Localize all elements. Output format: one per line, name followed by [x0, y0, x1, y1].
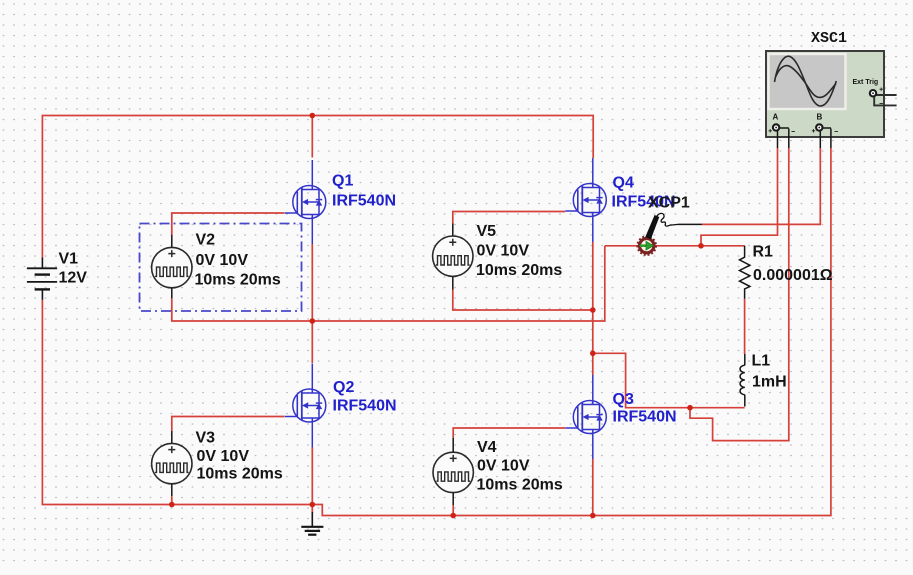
node Q3 source / ground rail: [590, 513, 596, 519]
pulse source V4: [433, 452, 473, 492]
node V5- / right leg: [590, 307, 596, 313]
svg-text:0.000001Ω: 0.000001Ω: [753, 267, 833, 284]
wire right leg Q4 source to Q3 drain: [592, 242, 594, 375]
scope trace B: [776, 66, 836, 98]
svg-text:B: B: [817, 113, 823, 122]
node top rail / Q1 drain: [310, 113, 316, 119]
wire Q1 drain branch: [311, 116, 313, 158]
wire V4- to ground rail: [452, 505, 454, 516]
wire Q2 source to ground rail: [311, 448, 313, 505]
wire probe node to R1 top: [605, 245, 745, 247]
transistor Q2: [285, 364, 326, 448]
wire L1 bottom to Q3 drain node: [593, 353, 745, 407]
transistor Q4: [565, 158, 606, 242]
node V3- / ground rail: [169, 502, 175, 508]
node Q3 drain branch: [590, 351, 596, 357]
battery V1: [27, 258, 57, 300]
wire V4+ to Q3 gate: [453, 428, 565, 438]
wire ground stub red: [311, 505, 313, 514]
svg-text:10ms 20ms: 10ms 20ms: [195, 271, 281, 288]
node V4- / ground rail: [450, 513, 456, 519]
wire V5- to right leg midpoint: [453, 290, 593, 311]
node probe wire / scope A+: [698, 243, 704, 249]
pulse source V2: [152, 247, 192, 287]
wire R1 bottom to L1 top: [744, 299, 746, 354]
node L1 bottom / scope A-: [687, 405, 693, 411]
transistor Q1: [285, 160, 326, 244]
svg-text:IRF540N: IRF540N: [613, 409, 677, 426]
pulse source V3: [152, 443, 192, 483]
svg-text:XSC1: XSC1: [811, 30, 847, 47]
svg-text:0V 10V: 0V 10V: [477, 243, 530, 260]
resistor R1: [740, 246, 750, 299]
wire ext trig leads: [874, 95, 896, 105]
wire Q3 source down to ground rail: [592, 459, 594, 516]
wire V5+ to Q4 gate: [453, 212, 565, 224]
svg-text:0V 10V: 0V 10V: [477, 458, 530, 475]
scope trace A: [775, 56, 837, 106]
wire scope A- to L1 bottom node: [690, 148, 789, 441]
svg-text:10ms 20ms: 10ms 20ms: [197, 466, 283, 483]
svg-text:IRF540N: IRF540N: [333, 398, 397, 415]
wire V3- to ground rail: [171, 496, 173, 504]
svg-text:V1: V1: [59, 251, 79, 268]
wire scope channel stubs: [776, 128, 831, 148]
svg-text:A: A: [773, 113, 779, 122]
svg-text:Ext Trig: Ext Trig: [853, 79, 879, 86]
oscilloscope XSC1: [766, 51, 897, 148]
svg-text:V2: V2: [196, 231, 216, 248]
wire clamp lead to scope B+ black part: [678, 223, 702, 225]
node Q2 source / ground: [310, 502, 316, 508]
selection box around V2: [140, 224, 302, 312]
ground: [301, 512, 323, 535]
wire V2+ to Q1 gate: [172, 213, 285, 235]
wire left leg midpoint Q1 source to Q2 drain: [311, 244, 313, 363]
svg-text:12V: 12V: [59, 270, 88, 287]
wire V2- to midpoint rail to probe wire: [172, 246, 605, 321]
svg-text:0V 10V: 0V 10V: [196, 252, 249, 269]
transistor Q3: [565, 375, 606, 459]
svg-text:0V 10V: 0V 10V: [197, 448, 250, 465]
wire V3+ to Q2 gate: [172, 417, 285, 432]
svg-text:XCP1: XCP1: [648, 195, 690, 212]
pulse source V5: [433, 236, 473, 276]
inductor L1: [740, 354, 745, 407]
svg-text:Q2: Q2: [333, 379, 354, 396]
wire top rail V1+ to Q1/Q4 drains: [42, 116, 593, 258]
svg-text:10ms 20ms: 10ms 20ms: [476, 262, 562, 279]
wire ground rail from V1- to scope B-: [42, 148, 831, 516]
node midpoint rail / left leg: [310, 318, 316, 324]
svg-text:10ms 20ms: 10ms 20ms: [477, 477, 563, 494]
svg-text:IRF540N: IRF540N: [332, 193, 396, 210]
wire scope A+ to probe node: [701, 148, 778, 246]
svg-text:1mH: 1mH: [752, 373, 787, 390]
svg-text:Q3: Q3: [613, 391, 634, 408]
svg-text:V3: V3: [196, 429, 216, 446]
svg-text:Q1: Q1: [332, 173, 353, 190]
svg-text:Q4: Q4: [613, 175, 634, 192]
wire scope B+ red part: [702, 148, 820, 224]
svg-text:R1: R1: [753, 244, 774, 261]
current probe XCP1: [637, 213, 678, 255]
svg-text:L1: L1: [752, 352, 771, 369]
svg-text:V4: V4: [477, 439, 497, 456]
svg-text:V5: V5: [477, 223, 497, 240]
